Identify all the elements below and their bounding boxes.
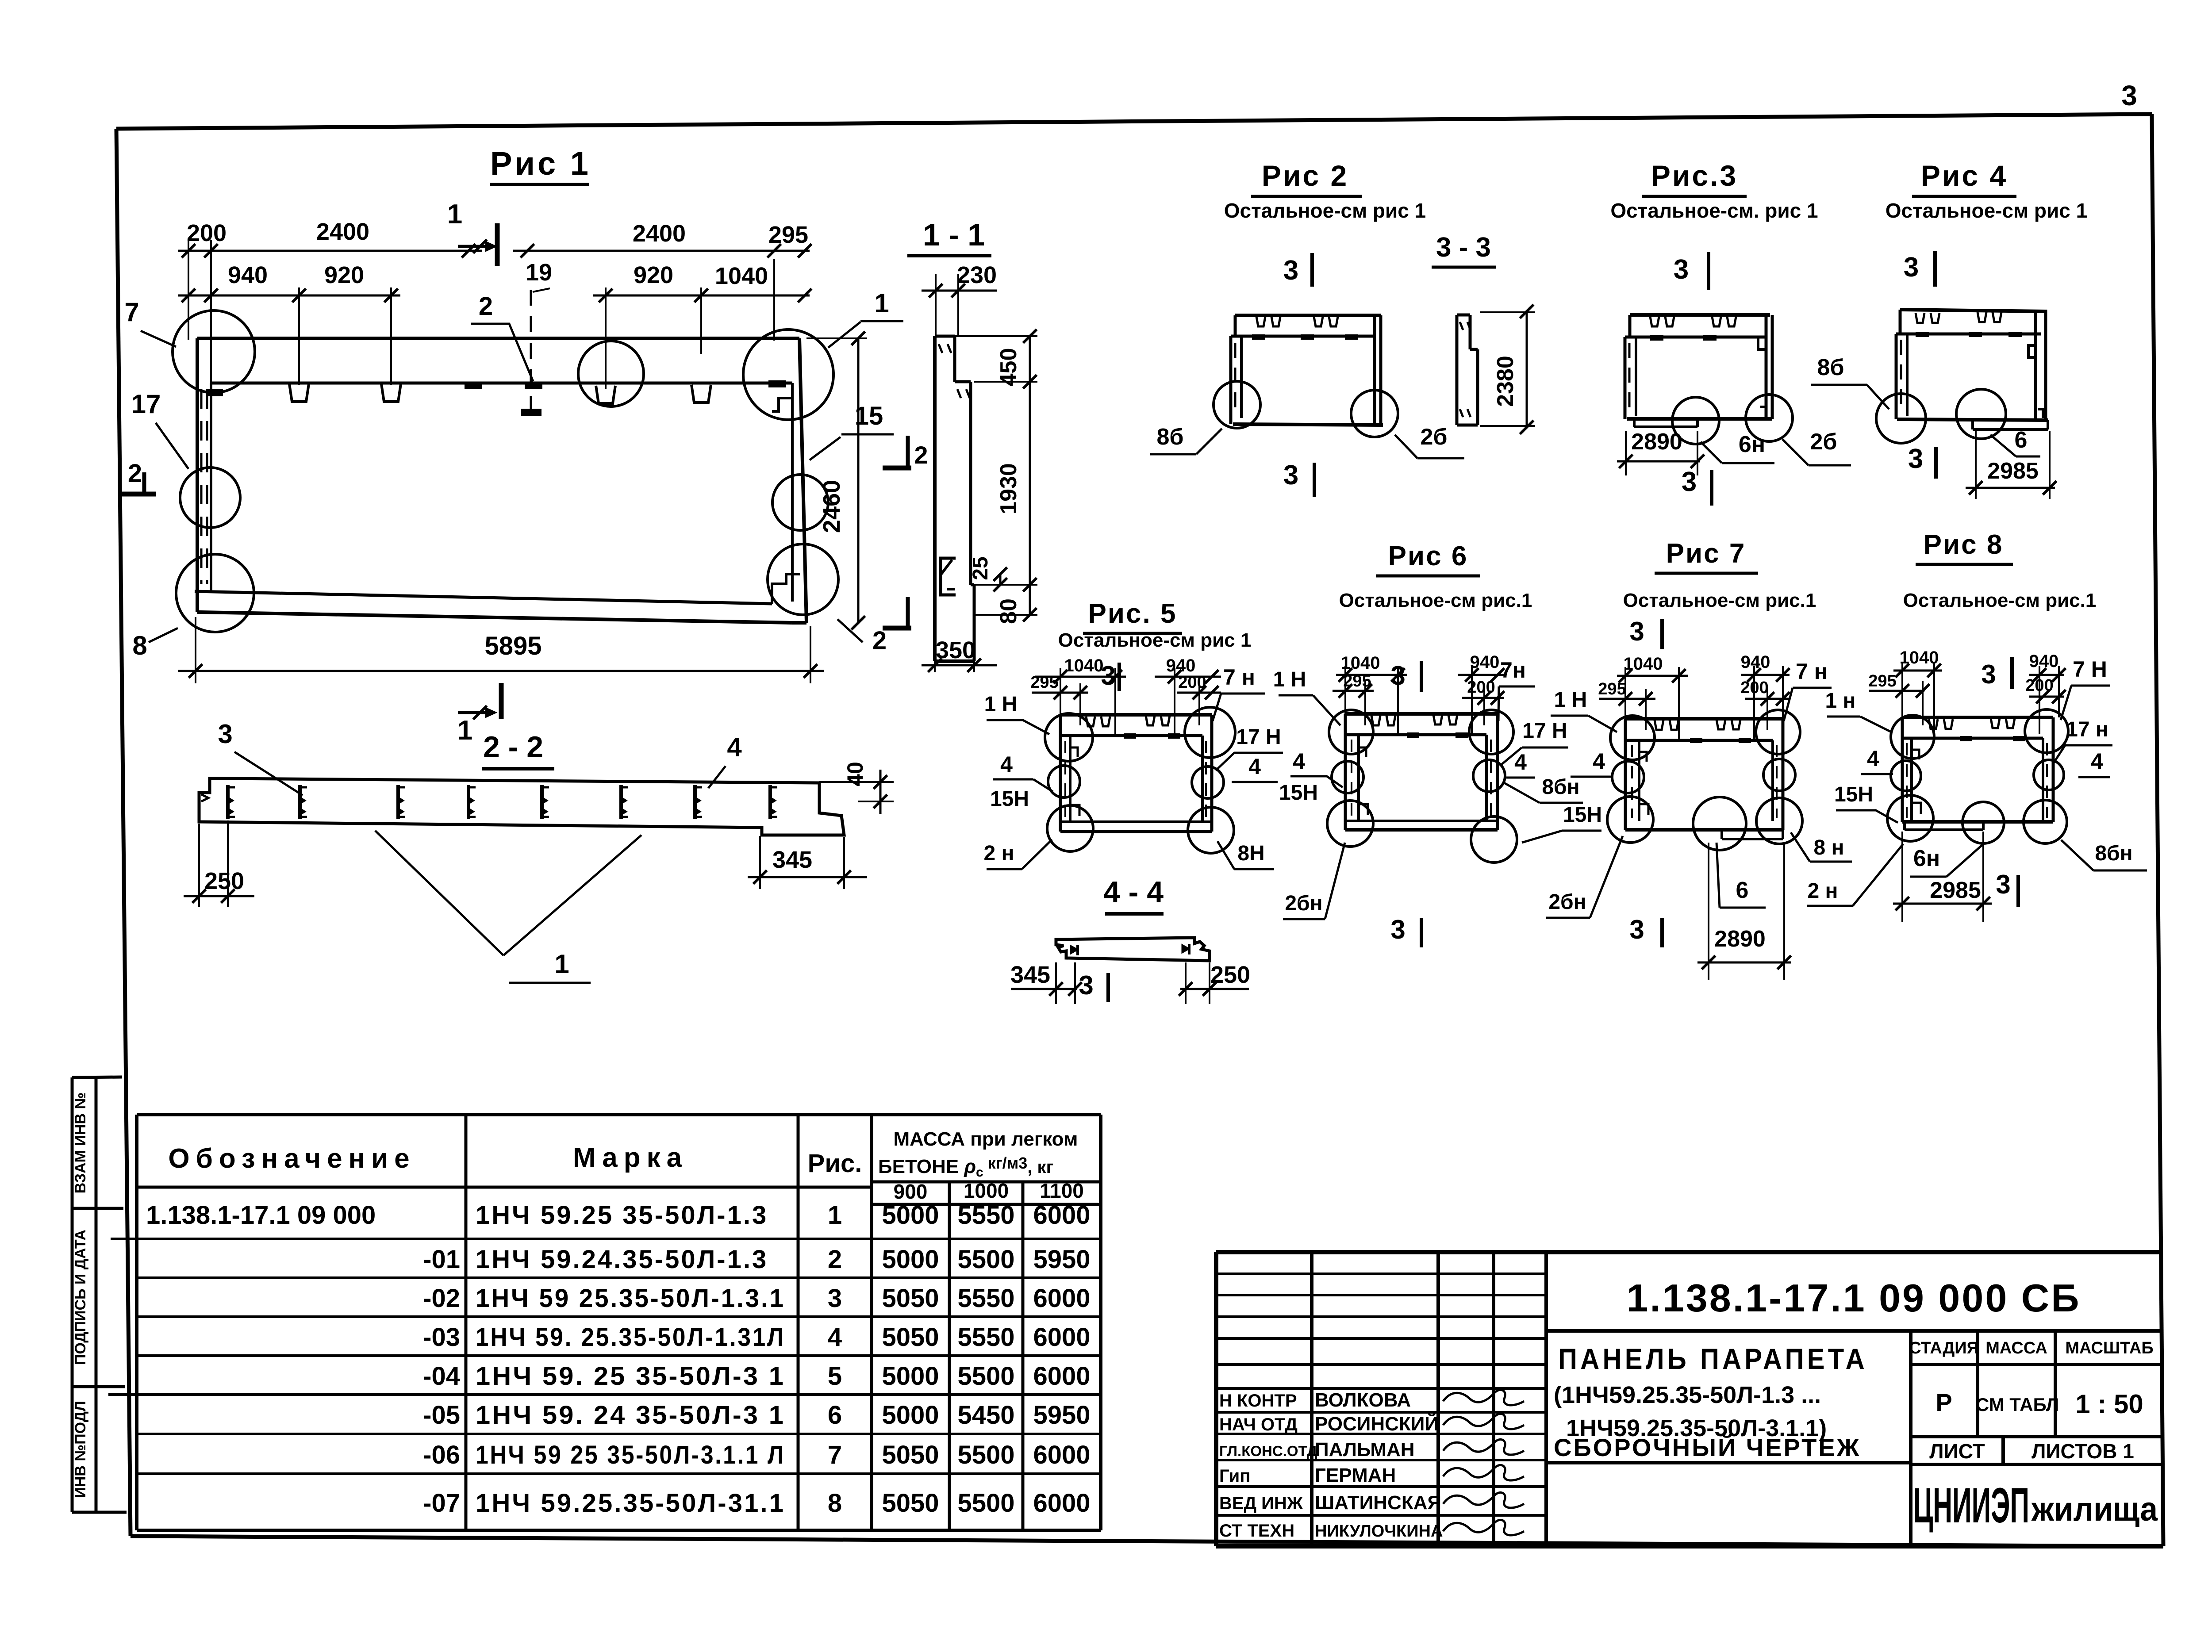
svg-text:МАССА при легком: МАССА при легком: [894, 1128, 1078, 1150]
svg-text:250: 250: [1210, 962, 1250, 988]
svg-text:5950: 5950: [1033, 1245, 1090, 1274]
svg-text:4 - 4: 4 - 4: [1103, 875, 1164, 909]
svg-text:17 н: 17 н: [2066, 718, 2108, 741]
svg-text:3: 3: [1079, 970, 1093, 1000]
svg-text:8 н: 8 н: [1813, 836, 1844, 859]
svg-text:2: 2: [828, 1245, 842, 1274]
svg-text:2б: 2б: [1810, 429, 1837, 455]
svg-text:1 Н: 1 Н: [1273, 668, 1306, 691]
svg-text:1100: 1100: [1040, 1179, 1084, 1202]
svg-text:3: 3: [1996, 870, 2010, 899]
svg-text:7н: 7н: [1500, 658, 1526, 682]
svg-text:Рис 1: Рис 1: [490, 145, 591, 182]
svg-text:3: 3: [218, 719, 232, 749]
svg-text:6000: 6000: [1033, 1323, 1090, 1352]
svg-text:5: 5: [828, 1362, 842, 1391]
svg-text:2890: 2890: [1714, 926, 1766, 952]
svg-text:5895: 5895: [484, 632, 541, 660]
svg-text:8б: 8б: [1817, 355, 1844, 380]
svg-text:2бн: 2бн: [1548, 890, 1586, 914]
svg-text:СТАДИЯ: СТАДИЯ: [1909, 1339, 1979, 1357]
svg-text:1: 1: [457, 715, 472, 746]
svg-text:8бн: 8бн: [1542, 775, 1579, 799]
svg-text:1НЧ 59.25 35-50Л-1.3: 1НЧ 59.25 35-50Л-1.3: [476, 1201, 768, 1230]
svg-text:Остальное-см рис 1: Остальное-см рис 1: [1224, 199, 1426, 222]
svg-text:-02: -02: [423, 1284, 460, 1313]
svg-text:БЕТОНЕ ρc кг/м3, кг: БЕТОНЕ ρc кг/м3, кг: [878, 1154, 1053, 1180]
svg-text:Остальное-см рис 1: Остальное-см рис 1: [1058, 629, 1252, 651]
svg-text:СБОРОЧНЫЙ ЧЕРТЕЖ: СБОРОЧНЫЙ ЧЕРТЕЖ: [1554, 1434, 1861, 1461]
svg-text:3: 3: [1390, 661, 1405, 690]
svg-text:6000: 6000: [1033, 1489, 1090, 1518]
svg-text:7 н: 7 н: [1796, 659, 1828, 684]
svg-text:РОСИНСКИЙ: РОСИНСКИЙ: [1315, 1412, 1439, 1435]
svg-text:1НЧ 59. 25.35-50Л-1.31Л: 1НЧ 59. 25.35-50Л-1.31Л: [476, 1323, 785, 1352]
svg-text:6000: 6000: [1033, 1441, 1090, 1469]
svg-text:6000: 6000: [1033, 1201, 1090, 1230]
svg-text:295: 295: [1868, 672, 1896, 690]
svg-text:СМ ТАБЛ: СМ ТАБЛ: [1976, 1394, 2059, 1415]
svg-text:ПАНЕЛЬ ПАРАПЕТА: ПАНЕЛЬ ПАРАПЕТА: [1558, 1342, 1868, 1375]
svg-text:Остальное-см. рис 1: Остальное-см. рис 1: [1610, 199, 1818, 222]
svg-text:80: 80: [996, 598, 1022, 624]
svg-text:СТ ТЕХН: СТ ТЕХН: [1219, 1521, 1294, 1541]
svg-text:5000: 5000: [882, 1245, 939, 1274]
svg-text:МАССА: МАССА: [1985, 1339, 2047, 1357]
svg-text:ПАЛЬМАН: ПАЛЬМАН: [1315, 1439, 1415, 1460]
svg-text:Обозначение: Обозначение: [168, 1143, 415, 1174]
svg-text:3: 3: [1908, 444, 1923, 474]
svg-text:НАЧ ОТД: НАЧ ОТД: [1219, 1415, 1298, 1434]
svg-text:1НЧ 59. 25 35-50Л-3 1: 1НЧ 59. 25 35-50Л-3 1: [476, 1362, 785, 1391]
svg-text:ВОЛКОВА: ВОЛКОВА: [1315, 1389, 1411, 1411]
svg-text:Остальное-см рис.1: Остальное-см рис.1: [1623, 590, 1816, 611]
svg-text:4: 4: [1867, 746, 1879, 771]
svg-text:Рис 7: Рис 7: [1666, 538, 1746, 569]
svg-text:-05: -05: [423, 1401, 460, 1430]
svg-text:2: 2: [872, 626, 887, 655]
svg-text:295: 295: [1030, 673, 1058, 692]
svg-text:250: 250: [204, 868, 244, 894]
svg-text:4: 4: [1248, 754, 1261, 779]
svg-text:200: 200: [187, 220, 227, 246]
svg-text:920: 920: [324, 262, 364, 288]
svg-text:НИКУЛОЧКИНА: НИКУЛОЧКИНА: [1315, 1522, 1443, 1541]
svg-text:1: 1: [554, 949, 569, 979]
svg-text:2б: 2б: [1420, 424, 1447, 450]
svg-text:1040: 1040: [1064, 656, 1104, 675]
svg-text:1НЧ 59. 24 35-50Л-3 1: 1НЧ 59. 24 35-50Л-3 1: [476, 1401, 785, 1430]
svg-text:15Н: 15Н: [1834, 783, 1873, 806]
svg-text:5000: 5000: [882, 1401, 939, 1430]
svg-text:1 - 1: 1 - 1: [923, 218, 985, 252]
svg-text:жилища: жилища: [2031, 1491, 2158, 1528]
svg-text:-03: -03: [423, 1323, 460, 1352]
svg-text:25: 25: [969, 556, 992, 580]
svg-text:5550: 5550: [957, 1323, 1014, 1352]
svg-text:7: 7: [124, 297, 139, 327]
svg-text:Гип: Гип: [1219, 1466, 1250, 1486]
svg-text:5500: 5500: [957, 1441, 1014, 1469]
svg-text:ПОДПИСЬ И ДАТА: ПОДПИСЬ И ДАТА: [72, 1230, 89, 1365]
svg-text:ЦНИИЭП: ЦНИИЭП: [1913, 1478, 2029, 1533]
svg-text:940: 940: [228, 262, 268, 288]
svg-text:ЛИСТОВ 1: ЛИСТОВ 1: [2032, 1440, 2134, 1463]
svg-text:2 н: 2 н: [1807, 879, 1838, 903]
svg-text:Рис. 5: Рис. 5: [1088, 598, 1177, 629]
svg-text:Рис 4: Рис 4: [1921, 159, 2008, 192]
svg-text:6000: 6000: [1033, 1284, 1090, 1313]
svg-text:-06: -06: [423, 1441, 460, 1469]
svg-text:2 - 2: 2 - 2: [483, 730, 543, 764]
svg-text:3: 3: [1101, 661, 1115, 690]
svg-text:7 н: 7 н: [1223, 665, 1255, 690]
svg-text:8: 8: [828, 1489, 842, 1518]
svg-text:1.138.1-17.1 09 000 СБ: 1.138.1-17.1 09 000 СБ: [1626, 1276, 2081, 1320]
svg-text:5050: 5050: [882, 1323, 939, 1352]
svg-text:8Н: 8Н: [1237, 842, 1264, 865]
svg-text:2460: 2460: [818, 480, 845, 533]
svg-text:3: 3: [1629, 915, 1644, 944]
svg-text:2985: 2985: [1987, 458, 2039, 484]
svg-text:1040: 1040: [1341, 653, 1380, 673]
svg-text:17: 17: [131, 389, 161, 419]
svg-text:3: 3: [2121, 80, 2137, 111]
svg-text:5500: 5500: [957, 1362, 1014, 1391]
svg-text:1.138.1-17.1 09 000: 1.138.1-17.1 09 000: [146, 1201, 376, 1230]
svg-text:5050: 5050: [882, 1489, 939, 1518]
svg-text:(1НЧ59.25.35-50Л-1.3 ...: (1НЧ59.25.35-50Л-1.3 ...: [1554, 1382, 1821, 1408]
svg-text:ГЕРМАН: ГЕРМАН: [1315, 1464, 1396, 1486]
svg-text:4: 4: [828, 1323, 842, 1352]
svg-text:Рис 6: Рис 6: [1388, 541, 1468, 571]
svg-text:Рис.3: Рис.3: [1651, 159, 1738, 192]
svg-text:6н: 6н: [1739, 432, 1765, 457]
svg-text:1: 1: [828, 1201, 842, 1230]
svg-text:6н: 6н: [1913, 846, 1940, 871]
svg-text:1930: 1930: [996, 463, 1022, 514]
svg-text:1 Н: 1 Н: [984, 693, 1018, 716]
svg-text:3: 3: [1981, 659, 1996, 689]
svg-text:1: 1: [874, 288, 889, 318]
svg-text:ВЕД ИНЖ: ВЕД ИНЖ: [1219, 1494, 1303, 1513]
svg-text:19: 19: [526, 259, 552, 286]
svg-text:940: 940: [2029, 652, 2059, 671]
svg-text:5550: 5550: [957, 1284, 1014, 1313]
svg-text:Р: Р: [1935, 1388, 1952, 1416]
svg-text:6: 6: [2015, 427, 2028, 453]
svg-text:1040: 1040: [715, 263, 768, 289]
svg-text:-01: -01: [423, 1245, 460, 1274]
svg-text:3 - 3: 3 - 3: [1436, 232, 1491, 263]
svg-text:920: 920: [634, 262, 673, 288]
svg-text:6000: 6000: [1033, 1362, 1090, 1391]
svg-text:Рис.: Рис.: [808, 1149, 862, 1178]
svg-text:3: 3: [1283, 460, 1298, 491]
svg-text:5500: 5500: [957, 1489, 1014, 1518]
svg-text:5450: 5450: [957, 1401, 1014, 1430]
svg-text:Остальное-см рис 1: Остальное-см рис 1: [1886, 199, 2087, 222]
svg-text:5000: 5000: [882, 1201, 939, 1230]
svg-text:1НЧ 59.24.35-50Л-1.3: 1НЧ 59.24.35-50Л-1.3: [476, 1245, 768, 1274]
svg-text:3: 3: [828, 1284, 842, 1313]
svg-text:3: 3: [1629, 617, 1644, 646]
svg-text:8бн: 8бн: [2095, 842, 2132, 865]
svg-text:1: 1: [447, 199, 462, 230]
svg-text:Рис 8: Рис 8: [1924, 529, 2004, 560]
svg-text:5550: 5550: [957, 1201, 1014, 1230]
svg-text:ВЗАМ ИНВ №: ВЗАМ ИНВ №: [72, 1092, 89, 1194]
svg-text:-04: -04: [423, 1362, 460, 1391]
svg-text:Рис 2: Рис 2: [1262, 159, 1348, 192]
svg-text:5500: 5500: [957, 1245, 1014, 1274]
svg-text:МАСШТАБ: МАСШТАБ: [2065, 1339, 2153, 1357]
svg-text:1 Н: 1 Н: [1554, 688, 1587, 712]
svg-text:2бн: 2бн: [1285, 892, 1322, 915]
svg-text:295: 295: [768, 222, 808, 248]
svg-text:4: 4: [1593, 749, 1605, 774]
svg-text:1 : 50: 1 : 50: [2075, 1389, 2143, 1419]
svg-text:15Н: 15Н: [990, 787, 1029, 811]
svg-text:5050: 5050: [882, 1284, 939, 1313]
svg-text:ГЛ.КОНС.ОТД: ГЛ.КОНС.ОТД: [1219, 1443, 1317, 1459]
svg-text:1НЧ 59 25.35-50Л-1.3.1: 1НЧ 59 25.35-50Л-1.3.1: [476, 1284, 785, 1313]
svg-text:15Н: 15Н: [1563, 803, 1602, 827]
svg-text:4: 4: [1514, 750, 1527, 774]
svg-text:Остальное-см рис.1: Остальное-см рис.1: [1339, 590, 1532, 611]
svg-text:Марка: Марка: [573, 1142, 688, 1173]
svg-text:2: 2: [479, 292, 493, 321]
svg-text:450: 450: [996, 348, 1022, 387]
svg-text:2380: 2380: [1493, 356, 1518, 407]
svg-text:40: 40: [843, 762, 868, 786]
svg-text:940: 940: [1470, 652, 1500, 672]
svg-text:940: 940: [1166, 656, 1196, 675]
svg-text:3: 3: [1390, 915, 1405, 944]
svg-text:4: 4: [727, 732, 742, 762]
svg-text:7: 7: [828, 1441, 842, 1469]
svg-text:15Н: 15Н: [1279, 781, 1318, 805]
svg-text:1000: 1000: [964, 1179, 1009, 1202]
svg-text:5000: 5000: [882, 1362, 939, 1391]
svg-text:6: 6: [828, 1401, 842, 1430]
svg-text:7 Н: 7 Н: [2073, 657, 2107, 682]
svg-text:4: 4: [1000, 752, 1013, 777]
svg-text:Н КОНТР: Н КОНТР: [1219, 1391, 1297, 1411]
svg-text:ЛИСТ: ЛИСТ: [1929, 1440, 1985, 1463]
svg-text:345: 345: [772, 847, 812, 873]
svg-text:1040: 1040: [1900, 648, 1939, 667]
svg-text:3: 3: [1283, 255, 1298, 286]
svg-text:2985: 2985: [1930, 878, 1981, 903]
svg-text:4: 4: [2091, 749, 2103, 774]
svg-text:2400: 2400: [316, 218, 369, 245]
svg-text:5050: 5050: [882, 1441, 939, 1469]
svg-text:6: 6: [1736, 878, 1749, 903]
svg-text:1НЧ 59 25 35-50Л-3.1.1 Л: 1НЧ 59 25 35-50Л-3.1.1 Л: [476, 1441, 785, 1469]
svg-text:2400: 2400: [633, 220, 686, 247]
svg-text:5950: 5950: [1033, 1401, 1090, 1430]
svg-text:295: 295: [1598, 680, 1626, 698]
svg-text:1НЧ 59.25.35-50Л-31.1: 1НЧ 59.25.35-50Л-31.1: [476, 1489, 785, 1518]
svg-text:3: 3: [1682, 467, 1697, 497]
svg-text:ИНВ №ПОДЛ: ИНВ №ПОДЛ: [72, 1401, 89, 1498]
svg-text:-07: -07: [423, 1489, 460, 1518]
svg-text:2890: 2890: [1631, 429, 1682, 455]
svg-text:940: 940: [1741, 652, 1770, 672]
svg-text:2 н: 2 н: [983, 842, 1014, 865]
svg-text:8: 8: [132, 631, 147, 660]
svg-text:900: 900: [894, 1180, 928, 1203]
svg-text:2: 2: [914, 441, 928, 469]
svg-text:2: 2: [128, 459, 142, 488]
svg-text:345: 345: [1010, 962, 1050, 988]
svg-text:ШАТИНСКАЯ: ШАТИНСКАЯ: [1315, 1492, 1441, 1514]
svg-text:3: 3: [1904, 252, 1919, 283]
svg-text:8б: 8б: [1156, 424, 1183, 450]
svg-text:3: 3: [1674, 254, 1689, 285]
svg-text:Остальное-см рис.1: Остальное-см рис.1: [1903, 590, 2097, 611]
svg-text:1 н: 1 н: [1825, 689, 1855, 713]
svg-text:4: 4: [1293, 749, 1305, 774]
svg-text:17 Н: 17 Н: [1236, 725, 1281, 749]
svg-text:17 Н: 17 Н: [1522, 719, 1567, 743]
